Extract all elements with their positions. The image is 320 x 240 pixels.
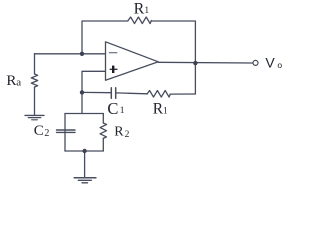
svg-text:2: 2 [125,130,130,140]
svg-text:1: 1 [120,106,125,116]
svg-text:a: a [16,77,21,89]
svg-text:1: 1 [144,6,149,16]
svg-text:V: V [265,54,275,70]
svg-text:1: 1 [163,107,168,117]
svg-text:C: C [107,99,118,118]
svg-text:R: R [114,125,124,140]
svg-text:o: o [277,60,282,70]
svg-text:2: 2 [44,128,49,139]
svg-text:C: C [34,123,44,139]
svg-text:R: R [6,73,16,89]
svg-text:R: R [134,1,145,18]
